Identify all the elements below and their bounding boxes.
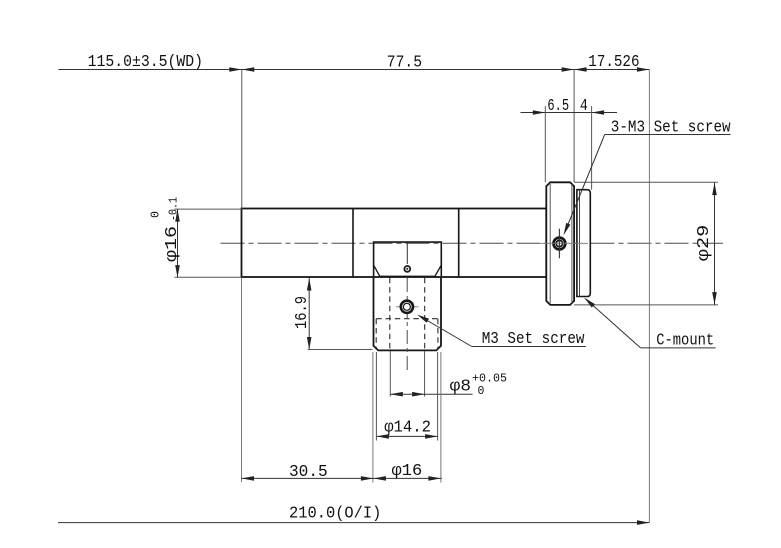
svg-text:115.0±3.5(WD): 115.0±3.5(WD) — [88, 53, 203, 72]
M3 set screw on side port — [396, 306, 419, 308]
svg-text:φ14.2: φ14.2 — [384, 419, 431, 438]
svg-text:φ16: φ16 — [392, 462, 423, 481]
svg-text:0: 0 — [150, 211, 163, 218]
hidden phi8 bore dashed right — [424, 278, 426, 350]
lens tube body outline — [242, 209, 547, 278]
dimension 6.5 and 4 — [521, 112, 618, 114]
svg-text:C-mount: C-mount — [656, 332, 714, 351]
leader and label M3 Set screw — [420, 316, 472, 347]
svg-text:30.5: 30.5 — [289, 463, 328, 482]
side port outer profile — [374, 277, 442, 350]
dimension phi29 — [574, 181, 718, 183]
svg-text:φ16: φ16 — [163, 226, 182, 262]
small screw on boss — [406, 243, 408, 264]
dimension phi14.2 — [375, 352, 377, 441]
centerline main horizontal axis — [221, 242, 724, 244]
dimension phi16 0/-0.1 left — [175, 208, 242, 210]
set screw 3-M3 on flange, end view — [554, 238, 566, 250]
svg-text:+0.05: +0.05 — [472, 373, 507, 386]
branch vertical centerline — [406, 278, 408, 371]
svg-text:0: 0 — [478, 385, 485, 398]
hidden phi14.2 counterbore dashed — [376, 318, 438, 320]
C-mount thread root line — [579, 190, 581, 297]
dimension phi8 +0.05/0 — [389, 351, 391, 397]
flange chamfer inner line left — [549, 184, 551, 303]
tube joint line 1 — [352, 209, 354, 278]
svg-text:6.5: 6.5 — [547, 97, 569, 116]
svg-text:17.526: 17.526 — [588, 53, 639, 72]
dimension 210.0(O/I) — [58, 522, 650, 524]
svg-text:3-M3 Set screw: 3-M3 Set screw — [611, 119, 731, 138]
leader and label C-mount — [586, 299, 641, 348]
extension line flange right / C-mount face — [573, 70, 575, 183]
svg-text:77.5: 77.5 — [387, 53, 422, 72]
extension line image plane — [648, 70, 650, 523]
dimension line 115.0 / 77.5 / 17.526 — [59, 69, 650, 71]
C-mount thread ring — [577, 190, 590, 297]
flange chamfer inner line right — [571, 184, 573, 303]
svg-text:φ8: φ8 — [450, 378, 471, 397]
svg-text:φ29: φ29 — [695, 225, 714, 262]
hidden phi8 bore dashed left — [389, 278, 391, 350]
set screw vertical centerline — [558, 229, 560, 259]
leader and label 3-M3 Set screw — [566, 135, 605, 231]
svg-text:4: 4 — [580, 97, 588, 116]
dimension 16.9 — [308, 278, 310, 350]
svg-text:210.0(O/I): 210.0(O/I) — [289, 505, 381, 524]
flange body phi29 with chamfered corners — [546, 182, 574, 305]
svg-text:M3 Set screw: M3 Set screw — [482, 330, 585, 349]
extension line at body left — [241, 70, 243, 209]
svg-text:-0.1: -0.1 — [168, 197, 181, 221]
dimension 30.5 and phi16 bottom — [372, 352, 374, 483]
svg-text:16.9: 16.9 — [293, 296, 312, 329]
side port boss upper box with chamfers — [374, 242, 442, 276]
tube joint line 2 — [458, 209, 460, 278]
